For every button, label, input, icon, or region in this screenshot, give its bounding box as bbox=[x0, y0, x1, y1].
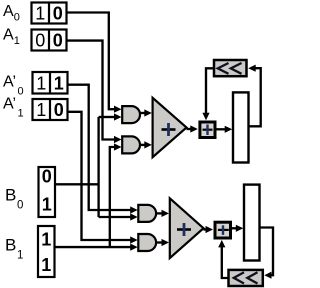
label B0 bbox=[5, 186, 23, 212]
svg-text:1: 1 bbox=[14, 35, 20, 47]
plus sign in P1 bbox=[203, 125, 213, 136]
svg-text:1: 1 bbox=[36, 73, 46, 93]
svg-text:1: 1 bbox=[36, 100, 46, 120]
wire G4 output bbox=[156, 241, 162, 243]
value box B1 = 1 / 1 bbox=[38, 226, 55, 277]
arrowhead into S2 right side bbox=[264, 272, 271, 279]
arrowhead A0 into G1 bbox=[114, 106, 122, 113]
label B1 bbox=[5, 236, 23, 262]
arrowhead U2 to P2 bbox=[206, 226, 214, 233]
svg-text:A’: A’ bbox=[3, 74, 16, 91]
wire U2 to adder box P2 bbox=[204, 228, 207, 230]
svg-text:0: 0 bbox=[53, 31, 63, 51]
svg-text:1: 1 bbox=[35, 4, 45, 24]
<< glyph in S2 bbox=[234, 272, 258, 283]
svg-text:0: 0 bbox=[18, 86, 24, 98]
shifter S1 (left shift) bbox=[214, 60, 247, 76]
wire S2 to P2 bottom bbox=[222, 247, 229, 279]
value box A1 = 0 0 bbox=[32, 30, 67, 51]
arrowhead U1 to P1 bbox=[190, 125, 198, 132]
adder U2 (triangle) bbox=[170, 198, 204, 258]
value box A'0 = 1 1 bbox=[33, 72, 68, 94]
wire U1 to adder box P1 bbox=[187, 128, 192, 130]
AND gate G1 bbox=[122, 106, 140, 123]
plus sign in U2 bbox=[177, 223, 191, 236]
adder U1 (triangle) bbox=[153, 98, 187, 157]
value box A'1 = 1 0 bbox=[33, 99, 68, 120]
AND gate G3 bbox=[138, 205, 156, 222]
wire A1 to gate G2 input 1 bbox=[67, 41, 115, 140]
plus sign in U1 bbox=[162, 123, 176, 136]
svg-text:0: 0 bbox=[14, 12, 20, 24]
wire A0 to gate G1 input 1 bbox=[67, 13, 115, 110]
adder box P1 bbox=[200, 122, 215, 138]
wire A'1 to gate G4 input 1 bbox=[68, 112, 131, 240]
wire R2 feedback to shifter S2 bbox=[260, 228, 274, 276]
wire B1 riser to gate G2 input 2 bbox=[110, 147, 115, 247]
arrowhead A1 into G2 bbox=[114, 136, 122, 143]
AND gate G2 bbox=[122, 136, 140, 153]
arrowhead A'1 into G4 bbox=[130, 236, 138, 243]
wire B0 riser top to gate G1 input 2 bbox=[99, 116, 115, 118]
<< glyph in S1 bbox=[218, 63, 242, 74]
arrowhead P1 to R1 bbox=[225, 126, 233, 133]
svg-text:1: 1 bbox=[42, 195, 52, 215]
svg-text:1: 1 bbox=[41, 230, 51, 250]
label A'1 bbox=[3, 96, 24, 120]
register R2 bbox=[244, 185, 260, 261]
svg-text:1: 1 bbox=[41, 255, 51, 275]
arrowhead into S1 right side bbox=[248, 65, 256, 72]
arrowhead S2 into P2 bottom bbox=[218, 240, 225, 248]
wire G3 output bbox=[156, 212, 162, 214]
svg-text:1: 1 bbox=[17, 250, 23, 262]
arrowhead A'0 into G3 bbox=[130, 206, 138, 213]
wire G2 output bbox=[140, 144, 145, 146]
svg-text:B: B bbox=[5, 236, 16, 255]
wire G1 output bbox=[140, 112, 145, 114]
svg-text:A’: A’ bbox=[3, 96, 16, 113]
wire B0 riser bottom to gate G3 input 2 bbox=[99, 216, 131, 218]
value box B0 = 0 / 1 bbox=[39, 167, 56, 218]
wire B0 trunk with riser bbox=[55, 117, 99, 217]
svg-text:1: 1 bbox=[18, 108, 24, 120]
svg-text:0: 0 bbox=[54, 100, 64, 120]
label A1 bbox=[3, 27, 20, 48]
AND gate G4 bbox=[138, 234, 156, 251]
wire B1 trunk to gate G4 input 2 bbox=[55, 246, 131, 248]
arrowhead B0 into G3 bbox=[130, 213, 138, 220]
register R1 bbox=[233, 92, 249, 162]
svg-text:B: B bbox=[5, 186, 16, 205]
wire R1 feedback to shifter S1 bbox=[249, 68, 261, 126]
adder box P2 bbox=[215, 222, 231, 238]
arrowhead B0 into G1 bbox=[114, 113, 122, 120]
arrowhead G2 to adder U1 bbox=[144, 141, 152, 148]
plus sign in P2 bbox=[218, 225, 229, 235]
svg-text:1: 1 bbox=[54, 73, 64, 93]
svg-text:0: 0 bbox=[35, 31, 45, 51]
arrowhead G4 to adder U2 bbox=[162, 239, 170, 246]
svg-text:0: 0 bbox=[17, 200, 23, 212]
wire P2 to register R2 bbox=[232, 227, 237, 229]
svg-text:A: A bbox=[3, 27, 14, 44]
svg-text:A: A bbox=[3, 3, 14, 20]
svg-text:0: 0 bbox=[53, 4, 63, 24]
svg-text:0: 0 bbox=[42, 167, 52, 187]
label A'0 bbox=[3, 74, 24, 98]
shifter S2 (left shift) bbox=[229, 270, 263, 286]
arrowhead B1 into G2 bbox=[114, 143, 122, 150]
label A0 bbox=[3, 3, 20, 24]
arrowhead G1 to adder U1 bbox=[144, 109, 152, 116]
arrowhead B1 into G4 bbox=[130, 244, 138, 251]
arrowhead G3 to adder U2 bbox=[162, 210, 170, 217]
wire S1 to P1 top bbox=[206, 68, 214, 113]
wire A'0 to gate G3 input 1 bbox=[68, 85, 131, 210]
arrowhead S1 into P1 top bbox=[202, 113, 209, 121]
value box A0 = 1 0 bbox=[32, 3, 67, 24]
wire P1 to register R1 bbox=[217, 128, 226, 130]
arrowhead P2 to R2 bbox=[236, 225, 244, 232]
